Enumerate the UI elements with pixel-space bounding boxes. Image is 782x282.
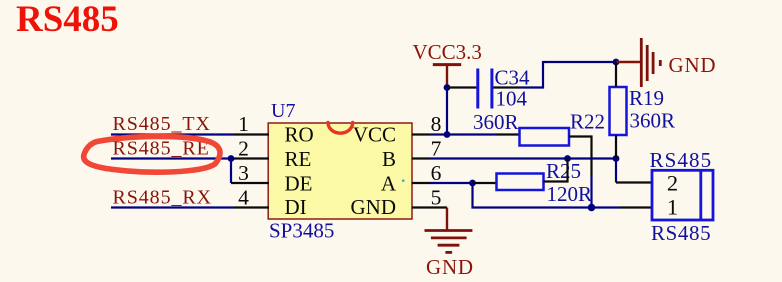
svg-text:2: 2 — [667, 171, 678, 196]
wire pin 1 stub — [234, 133, 269, 135]
svg-text:VCC: VCC — [353, 122, 396, 146]
svg-text:1: 1 — [238, 112, 249, 136]
wire pin 8 stub — [412, 133, 430, 135]
wire pin 5 stub — [412, 206, 447, 208]
node junction R22/A line — [588, 204, 596, 212]
op-amp U7 body (SP3485 transceiver) — [268, 123, 412, 219]
svg-text:B: B — [382, 147, 396, 171]
node junction A — [469, 180, 476, 187]
resistor R22 — [520, 128, 570, 146]
svg-text:RE: RE — [285, 147, 312, 171]
wire B net continued — [568, 157, 617, 159]
svg-text:RS485_RX: RS485_RX — [113, 187, 212, 209]
svg-text:3: 3 — [238, 161, 249, 185]
wire B down to connector pin 2 — [615, 159, 617, 183]
resistor R19 — [610, 87, 627, 135]
wire pin 6 stub — [412, 182, 430, 184]
wire R25 right elbow up to B — [544, 159, 568, 182]
svg-text:RS485_TX: RS485_TX — [113, 113, 211, 135]
svg-text:360R: 360R — [630, 109, 676, 133]
wire RS485_TX to pin 1 — [111, 133, 234, 135]
wire RS485_RX to pin 4 — [111, 206, 234, 208]
power symbol VCC3.3 — [413, 40, 482, 88]
wire pin 4 stub — [234, 206, 269, 208]
wire top node to GND symbol — [616, 61, 641, 63]
svg-text:DE: DE — [285, 171, 313, 195]
wire R22 elbow lower half — [590, 176, 592, 208]
svg-text:SP3485: SP3485 — [269, 219, 334, 243]
wire R22 right elbow down to A net — [569, 137, 592, 177]
wire pin 7 stub — [412, 157, 430, 159]
svg-text:8: 8 — [431, 112, 442, 136]
svg-text:120R: 120R — [547, 182, 593, 206]
svg-text:A: A — [381, 171, 397, 195]
svg-text:RS485: RS485 — [16, 0, 119, 40]
svg-text:104: 104 — [496, 87, 528, 111]
wire elbow up and right to top node — [519, 62, 616, 88]
svg-text:6: 6 — [431, 161, 442, 185]
wire A into R25 — [473, 182, 497, 184]
wire into connector pin 2 — [616, 181, 652, 183]
wire pin5 down to ground — [446, 208, 448, 231]
wire top node to R19 — [615, 62, 617, 87]
wire pin 3 stub — [231, 182, 269, 184]
resistor R25 — [497, 174, 544, 191]
red annotation arc notch on U7 — [328, 123, 353, 134]
svg-text:VCC3.3: VCC3.3 — [413, 40, 482, 64]
wire VCC node to R22 — [447, 133, 497, 135]
svg-text:2: 2 — [238, 136, 249, 160]
wire A down and right to connector pin 1 — [473, 183, 592, 208]
wire into connector pin 1 — [620, 206, 652, 208]
node junction R25 elbow / B — [564, 155, 571, 162]
svg-text:360R: 360R — [473, 110, 519, 134]
svg-text:GND: GND — [351, 195, 397, 219]
svg-text:GND: GND — [426, 255, 474, 279]
wire pin 2 stub — [231, 157, 269, 159]
node junction VCC/pin8 — [444, 131, 451, 138]
stray cyan speck — [402, 180, 404, 182]
ground GND (right, rotated) — [641, 38, 716, 87]
red annotation ellipse around RS485_RE — [84, 136, 220, 172]
svg-text:R19: R19 — [629, 86, 664, 110]
wire into R22 left — [497, 133, 520, 135]
svg-text:RO: RO — [285, 122, 314, 146]
wire RE to DE vertical — [230, 159, 232, 184]
wire VCC junction down to pin8 row — [446, 88, 448, 135]
wire A extension to connector — [592, 206, 621, 208]
svg-text:GND: GND — [669, 53, 717, 77]
wire B net — [430, 157, 568, 159]
wire R19 bottom to B — [615, 135, 617, 159]
svg-text:7: 7 — [431, 136, 442, 160]
node junction R19 / B — [613, 155, 620, 162]
capacitor C34 plates — [478, 69, 492, 109]
connector RS485 J1 — [652, 170, 713, 220]
node junction pin2/pin3 tie — [228, 155, 235, 162]
svg-text:1: 1 — [667, 195, 678, 220]
node junction VCC stem / C34 — [444, 84, 451, 91]
node junction top GND node — [613, 59, 620, 66]
svg-text:5: 5 — [431, 185, 442, 209]
ground GND (bottom) — [425, 231, 474, 280]
svg-text:R22: R22 — [570, 110, 605, 134]
wire C34 right to elbow — [493, 86, 519, 88]
wire pin8 to VCC node — [430, 133, 447, 135]
svg-text:RS485: RS485 — [650, 148, 713, 172]
svg-text:U7: U7 — [271, 100, 295, 122]
svg-text:DI: DI — [285, 195, 307, 219]
wire A net — [430, 182, 473, 184]
svg-text:4: 4 — [238, 185, 249, 209]
wire RS485_RE to pin 2 — [111, 157, 231, 159]
wire VCC junction to C34 — [447, 86, 476, 88]
svg-text:R25: R25 — [546, 159, 581, 183]
svg-text:RS485: RS485 — [651, 221, 711, 245]
